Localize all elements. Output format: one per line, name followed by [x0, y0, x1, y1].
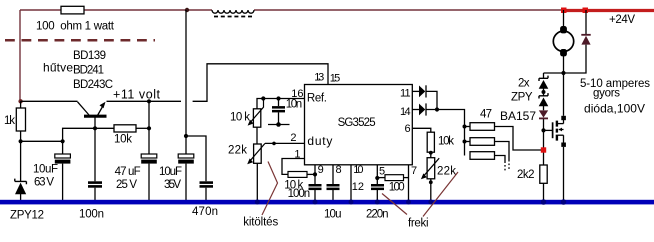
svg-text:+24V: +24V: [609, 14, 635, 26]
svg-text:BD241: BD241: [73, 64, 104, 76]
svg-text:kitöltés: kitöltés: [243, 217, 278, 229]
svg-text:ZPY: ZPY: [511, 92, 533, 104]
svg-text:freki: freki: [408, 218, 429, 230]
svg-text:100n: 100n: [79, 208, 104, 220]
svg-text:2k2: 2k2: [517, 169, 535, 181]
svg-text:5: 5: [379, 165, 385, 177]
svg-text:16: 16: [291, 88, 303, 100]
svg-text:BA157: BA157: [500, 109, 536, 123]
svg-text:gyors: gyors: [593, 88, 620, 100]
svg-text:10uF: 10uF: [33, 164, 58, 176]
svg-text:11: 11: [400, 88, 411, 100]
svg-text:470n: 470n: [192, 206, 218, 218]
svg-text:9: 9: [318, 164, 324, 176]
svg-text:1k: 1k: [4, 115, 15, 127]
svg-text:8: 8: [336, 164, 342, 176]
svg-text:BD139: BD139: [73, 50, 106, 62]
svg-text:hűtve: hűtve: [43, 60, 73, 74]
svg-text:6: 6: [404, 123, 410, 135]
svg-text:63 V: 63 V: [34, 177, 54, 189]
svg-text:2: 2: [290, 132, 296, 144]
svg-text:13: 13: [314, 72, 324, 84]
svg-text:14: 14: [400, 106, 411, 118]
svg-text:SG3525: SG3525: [338, 117, 376, 129]
svg-text:15: 15: [330, 72, 341, 84]
svg-text:22k: 22k: [228, 145, 247, 157]
svg-text:10k: 10k: [114, 133, 132, 145]
svg-text:100 ohm 1 watt: 100 ohm 1 watt: [36, 21, 115, 33]
svg-text:+11 volt: +11 volt: [113, 87, 161, 101]
svg-text:10u: 10u: [324, 209, 342, 221]
svg-text:12: 12: [352, 181, 364, 193]
svg-text:100n: 100n: [288, 188, 311, 200]
svg-text:10uF: 10uF: [159, 166, 182, 178]
svg-text:10k: 10k: [438, 136, 454, 148]
svg-text:10n: 10n: [286, 98, 303, 110]
svg-text:25 V: 25 V: [116, 179, 137, 191]
svg-text:47: 47: [480, 109, 492, 121]
svg-text:10: 10: [353, 164, 363, 176]
svg-text:dióda,100V: dióda,100V: [584, 102, 645, 116]
svg-text:35V: 35V: [164, 179, 181, 191]
svg-text:22k: 22k: [437, 166, 456, 178]
svg-text:1: 1: [294, 148, 300, 160]
svg-text:duty: duty: [307, 134, 332, 148]
svg-text:Ref.: Ref.: [307, 93, 327, 105]
svg-text:BD243C: BD243C: [73, 79, 113, 91]
svg-text:7: 7: [411, 165, 417, 177]
svg-text:2x: 2x: [518, 78, 530, 90]
svg-text:ZPY12: ZPY12: [10, 209, 44, 221]
svg-text:10 k: 10 k: [230, 111, 250, 123]
svg-text:220n: 220n: [366, 209, 389, 221]
svg-text:47 uF: 47 uF: [115, 166, 141, 178]
svg-text:100: 100: [389, 182, 405, 194]
